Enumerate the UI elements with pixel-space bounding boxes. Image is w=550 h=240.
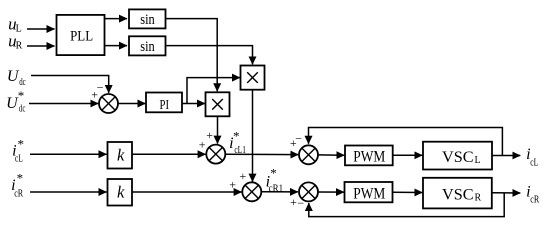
wire M2 to summer S2 — [252, 90, 254, 182]
svg-text:PLL: PLL — [70, 28, 93, 44]
svg-text:+: + — [229, 178, 236, 192]
wire PWM1 to VSCL — [393, 154, 423, 156]
block VSCL — [423, 142, 492, 170]
output label icR — [526, 184, 539, 206]
wire M1 to summer S1 — [217, 116, 219, 143]
svg-text:+: + — [240, 169, 247, 183]
svg-text:U: U — [7, 68, 20, 85]
wire branch PI to M2 — [187, 78, 240, 104]
svg-text:+: + — [290, 136, 297, 150]
wire PWM2 to VSCR — [393, 191, 423, 193]
svg-text:PWM: PWM — [353, 149, 385, 166]
svg-text:cR: cR — [530, 195, 539, 206]
svg-text:dc: dc — [19, 77, 26, 88]
summer S2 — [242, 182, 261, 201]
feedback wire icL to S3 — [309, 128, 503, 156]
svg-text:+: + — [91, 88, 98, 102]
svg-text:*: * — [233, 129, 240, 144]
wire VSCL output to icL — [492, 155, 520, 157]
wire Udc star to S0 — [29, 103, 98, 105]
svg-text:sin: sin — [140, 12, 155, 28]
wire PLL to sin2 — [105, 45, 128, 47]
input label Udc star — [6, 88, 26, 115]
output label icL — [526, 146, 538, 168]
block PLL — [57, 15, 105, 55]
svg-text:VSC: VSC — [442, 187, 474, 204]
block VSCR — [423, 178, 492, 209]
block k2 — [108, 179, 133, 206]
svg-text:k: k — [117, 182, 125, 201]
svg-text:L: L — [475, 155, 481, 166]
block k1 — [108, 142, 133, 169]
block sin1 — [129, 9, 166, 28]
svg-text:R: R — [475, 192, 482, 203]
wire icR star to k2 — [30, 191, 107, 193]
wire k1 to S1 — [132, 153, 206, 155]
svg-text:*: * — [18, 88, 25, 103]
input label icL star — [12, 137, 24, 165]
wire sin2 to multiplier M2 — [166, 46, 253, 65]
summer S1 — [206, 145, 225, 164]
wire S0 to PI — [118, 103, 146, 105]
svg-text:*: * — [17, 170, 24, 185]
wire k2 to S2 — [132, 191, 242, 193]
wire PLL to sin1 — [105, 18, 128, 20]
wire S4 to PWM2 — [318, 191, 344, 193]
svg-text:PI: PI — [160, 98, 170, 113]
svg-text:+: + — [199, 137, 206, 151]
svg-text:+: + — [290, 195, 297, 209]
wire uL to PLL — [27, 28, 55, 30]
wire Udc to summer S0 — [31, 76, 109, 93]
input label Udc — [7, 68, 26, 88]
svg-text:*: * — [17, 137, 24, 152]
block sin2 — [129, 36, 166, 55]
multiplier M1 — [206, 92, 230, 116]
input label icR star — [11, 170, 23, 199]
wire S1 to S3 — [225, 153, 298, 155]
summer S0 — [99, 94, 118, 113]
wire VSCR output to icR — [492, 192, 521, 194]
block PWM2 — [345, 182, 393, 202]
svg-text:+: + — [206, 128, 213, 142]
wire sin1 to multiplier M1 — [166, 19, 218, 92]
svg-text:VSC: VSC — [442, 149, 474, 166]
svg-text:cL: cL — [530, 157, 538, 168]
summer S3 — [299, 145, 318, 164]
wire icL star to k1 — [30, 153, 107, 155]
svg-text:R: R — [16, 41, 23, 52]
svg-text:PWM: PWM — [353, 185, 385, 202]
svg-text:cR: cR — [14, 188, 23, 199]
svg-text:cR1: cR1 — [269, 184, 284, 195]
svg-text:k: k — [117, 145, 125, 164]
feedback wire icR to S4 — [309, 193, 504, 217]
input label uR — [8, 31, 23, 51]
svg-text:*: * — [270, 166, 277, 181]
svg-text:dc: dc — [19, 103, 26, 114]
block PI — [146, 93, 182, 113]
summer S4 — [299, 182, 318, 201]
wire S2 to S4 — [261, 191, 298, 193]
input label uL — [8, 14, 22, 34]
svg-text:sin: sin — [140, 39, 155, 55]
wire S3 to PWM1 — [318, 154, 344, 156]
label icL1 star — [229, 129, 246, 157]
wire PI to M1 — [182, 103, 205, 105]
multiplier M2 — [241, 66, 265, 90]
svg-text:cL: cL — [15, 153, 23, 164]
block PWM1 — [345, 146, 393, 166]
wire uR to PLL — [27, 45, 55, 47]
label icR1 star — [266, 166, 284, 195]
